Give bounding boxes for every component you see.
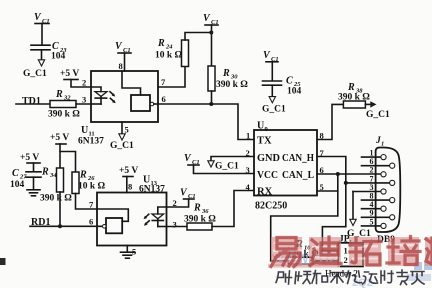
she2 bbox=[363, 272, 378, 284]
gray watermark line 2: she pin he tian xian she ji zhuan jia bbox=[276, 270, 424, 285]
svg-text:24: 24 bbox=[165, 44, 173, 51]
DB9 pin 9 bbox=[362, 209, 395, 220]
svg-text:10 k Ω: 10 k Ω bbox=[78, 182, 106, 192]
power +5V above U13 pin8 bbox=[119, 166, 138, 193]
wire R10 to JP1 pin2 bbox=[313, 260, 338, 262]
svg-text:6: 6 bbox=[89, 217, 93, 227]
svg-text:Header 2: Header 2 bbox=[325, 269, 358, 279]
svg-text:1: 1 bbox=[344, 246, 348, 256]
svg-text:G_C1: G_C1 bbox=[110, 141, 134, 151]
svg-text:R: R bbox=[193, 203, 201, 214]
svg-text:6: 6 bbox=[162, 94, 166, 104]
power +5V at C27 bbox=[20, 153, 40, 171]
DB9 pin 8 bbox=[362, 192, 395, 203]
wire RD1 line bbox=[30, 225, 103, 227]
svg-text:R: R bbox=[222, 68, 230, 79]
DB9 pin 2 bbox=[370, 166, 387, 177]
wire TD1 to R32 bbox=[16, 103, 49, 105]
svg-text:G_C1: G_C1 bbox=[23, 69, 47, 79]
detector inside U11 bbox=[122, 71, 158, 111]
wire R36 to 82C250 RX bbox=[212, 191, 254, 227]
ground G_C1 arrow right of R38 bbox=[365, 101, 390, 120]
svg-text:+5 V: +5 V bbox=[119, 166, 138, 176]
wire U11 pin6 to 82C250 TX bbox=[158, 104, 254, 140]
transceiver U9 82C250 bbox=[246, 121, 325, 212]
resistor R30 bbox=[208, 66, 248, 104]
power V_C1 above C25 bbox=[263, 50, 279, 80]
capacitor C27 bbox=[10, 168, 41, 190]
svg-text:C: C bbox=[286, 76, 293, 87]
svg-text:3: 3 bbox=[82, 95, 86, 105]
capacitor C25 bbox=[263, 76, 302, 97]
DB9 pin 6 bbox=[362, 157, 395, 168]
connector J1 DB9 bbox=[375, 136, 400, 245]
optocoupler U13 6N137 bbox=[89, 175, 177, 257]
svg-text:G_C1: G_C1 bbox=[262, 105, 286, 115]
svg-text:TX: TX bbox=[257, 136, 272, 147]
xian bbox=[347, 271, 362, 284]
svg-text:390 k Ω: 390 k Ω bbox=[338, 93, 370, 103]
svg-text:C: C bbox=[52, 41, 59, 52]
red watermark char 1 (yi) bbox=[271, 237, 302, 267]
node junction CAN_H / DB9 pin7 bbox=[344, 181, 348, 185]
LED inside U13 bbox=[152, 207, 167, 227]
node junction R24/VC1 bbox=[209, 31, 213, 35]
svg-text:C: C bbox=[12, 168, 19, 179]
svg-text:R: R bbox=[347, 82, 355, 93]
connector JP1 header 2 bbox=[325, 235, 363, 279]
svg-text:82C250: 82C250 bbox=[255, 201, 287, 212]
resistor R32 bbox=[48, 89, 80, 120]
svg-text:34: 34 bbox=[49, 172, 57, 179]
svg-text:8: 8 bbox=[119, 61, 123, 71]
zhuan bbox=[397, 270, 408, 285]
svg-text:390 k Ω: 390 k Ω bbox=[48, 110, 80, 120]
svg-text:CAN_H: CAN_H bbox=[282, 153, 314, 164]
power V_C1 above R30 bbox=[203, 13, 219, 66]
svg-text:R: R bbox=[157, 38, 165, 49]
svg-text:U: U bbox=[257, 121, 264, 132]
wire R32 to U11 pin3 bbox=[76, 103, 91, 105]
wire 82C250 pin5 stub bbox=[317, 190, 338, 192]
wire CAN_H net bbox=[317, 157, 346, 252]
svg-text:5: 5 bbox=[125, 125, 129, 135]
node junction R30/pin6 bbox=[209, 102, 213, 106]
svg-text:U: U bbox=[81, 125, 88, 136]
DB9 pin 3 bbox=[353, 183, 386, 194]
DB9 pin 5 bbox=[362, 217, 387, 228]
light arrows U11 bbox=[110, 92, 116, 104]
red watermark char 4 (pei) bbox=[387, 237, 420, 267]
svg-text:390 k Ω: 390 k Ω bbox=[184, 215, 216, 225]
blue watermark text fragments bbox=[272, 251, 432, 288]
svg-text:1: 1 bbox=[246, 131, 250, 141]
ground G_C1 at 82C250 GND bbox=[208, 161, 239, 172]
svg-text:390 k Ω: 390 k Ω bbox=[40, 194, 72, 204]
svg-text:390 k Ω: 390 k Ω bbox=[216, 80, 248, 90]
svg-text:8: 8 bbox=[128, 182, 132, 192]
svg-text:6N137: 6N137 bbox=[139, 185, 165, 195]
pink underline bar bbox=[268, 264, 340, 267]
ground earth under U13 pin5 bbox=[121, 246, 135, 259]
wire CAN_H to DB9 pin7 bbox=[346, 182, 390, 184]
svg-text:RX: RX bbox=[257, 187, 273, 198]
svg-text:2: 2 bbox=[344, 255, 348, 265]
svg-text:10 k Ω: 10 k Ω bbox=[155, 51, 183, 61]
DB9 pin 4 bbox=[362, 200, 387, 211]
svg-text:2: 2 bbox=[82, 78, 86, 88]
ground G_C1 arrow under C25 bbox=[262, 97, 286, 115]
he bbox=[312, 271, 328, 284]
wire GND pin2 left bbox=[211, 157, 254, 162]
red watermark char 5 (xun) sliver at edge bbox=[425, 237, 432, 266]
pin bbox=[295, 272, 311, 284]
power V_C1 at 82C250 VCC bbox=[184, 153, 254, 174]
svg-text:GND: GND bbox=[257, 153, 280, 164]
capacitor C23 bbox=[31, 41, 67, 62]
resistor R34 bbox=[40, 167, 72, 227]
ground G_C1 under U11 pin5 bbox=[110, 122, 134, 151]
page edge mark bottom-left bbox=[0, 258, 6, 265]
resistor R24 bbox=[155, 33, 211, 88]
power V_C1 top-left bbox=[34, 12, 50, 44]
svg-text:R: R bbox=[79, 170, 87, 181]
svg-text:+5 V: +5 V bbox=[20, 153, 39, 163]
svg-text:G_C1: G_C1 bbox=[366, 110, 390, 120]
power +5V above R34/R26 bbox=[50, 133, 76, 172]
svg-text:VCC: VCC bbox=[257, 170, 278, 181]
wire CAN_L termination net to R10 bbox=[271, 174, 338, 261]
svg-text:TD1: TD1 bbox=[22, 96, 41, 107]
resistor R38 top right bbox=[317, 82, 370, 140]
DB9 pin 1 bbox=[362, 149, 387, 160]
svg-text:104: 104 bbox=[10, 180, 25, 190]
svg-text:104: 104 bbox=[287, 87, 302, 97]
ground G_C1 arrow under C23 bbox=[23, 60, 47, 79]
wire CAN_L to DB9 pin2 bbox=[317, 173, 381, 175]
ji bbox=[381, 271, 393, 283]
svg-text:R: R bbox=[41, 167, 49, 178]
svg-text:CAN_L: CAN_L bbox=[282, 170, 314, 181]
svg-text:G_C1: G_C1 bbox=[215, 162, 239, 172]
svg-text:5: 5 bbox=[370, 217, 374, 226]
ground earth under C27 bbox=[27, 190, 40, 196]
svg-text:3: 3 bbox=[173, 220, 177, 230]
resistor R10 bbox=[287, 239, 319, 264]
power V_C1 above U11 pin8 bbox=[115, 41, 131, 71]
she bbox=[276, 271, 292, 284]
svg-text:1: 1 bbox=[381, 141, 384, 148]
svg-text:R: R bbox=[55, 89, 63, 100]
detector inside U13 bbox=[97, 209, 128, 233]
DB9 pin 7 bbox=[370, 174, 395, 185]
power V_C1 at U13 pin2 bbox=[167, 188, 196, 208]
resistor R26 bbox=[72, 170, 106, 210]
svg-text:+5 V: +5 V bbox=[50, 133, 69, 143]
svg-text:104: 104 bbox=[51, 52, 66, 62]
ground G_C1 arrow under DB9 pin3 bbox=[347, 192, 371, 240]
red watermark char 2 (di) bbox=[309, 237, 341, 266]
resistor R36 bbox=[167, 203, 217, 231]
tian bbox=[331, 273, 344, 284]
red watermark char 3 (tuo) bbox=[349, 237, 381, 266]
node junction CAN_L bbox=[336, 172, 340, 176]
svg-text:6N137: 6N137 bbox=[78, 137, 104, 147]
power +5V to U11 pin2 bbox=[60, 69, 91, 87]
optocoupler U11 6N137 bbox=[78, 61, 166, 147]
node junction R34/RD1 bbox=[58, 224, 62, 228]
jia bbox=[411, 272, 424, 285]
light arrows U13 bbox=[144, 214, 150, 226]
LED inside U11 bbox=[91, 87, 107, 104]
svg-text:32: 32 bbox=[63, 95, 71, 102]
svg-text:+5 V: +5 V bbox=[60, 69, 79, 79]
